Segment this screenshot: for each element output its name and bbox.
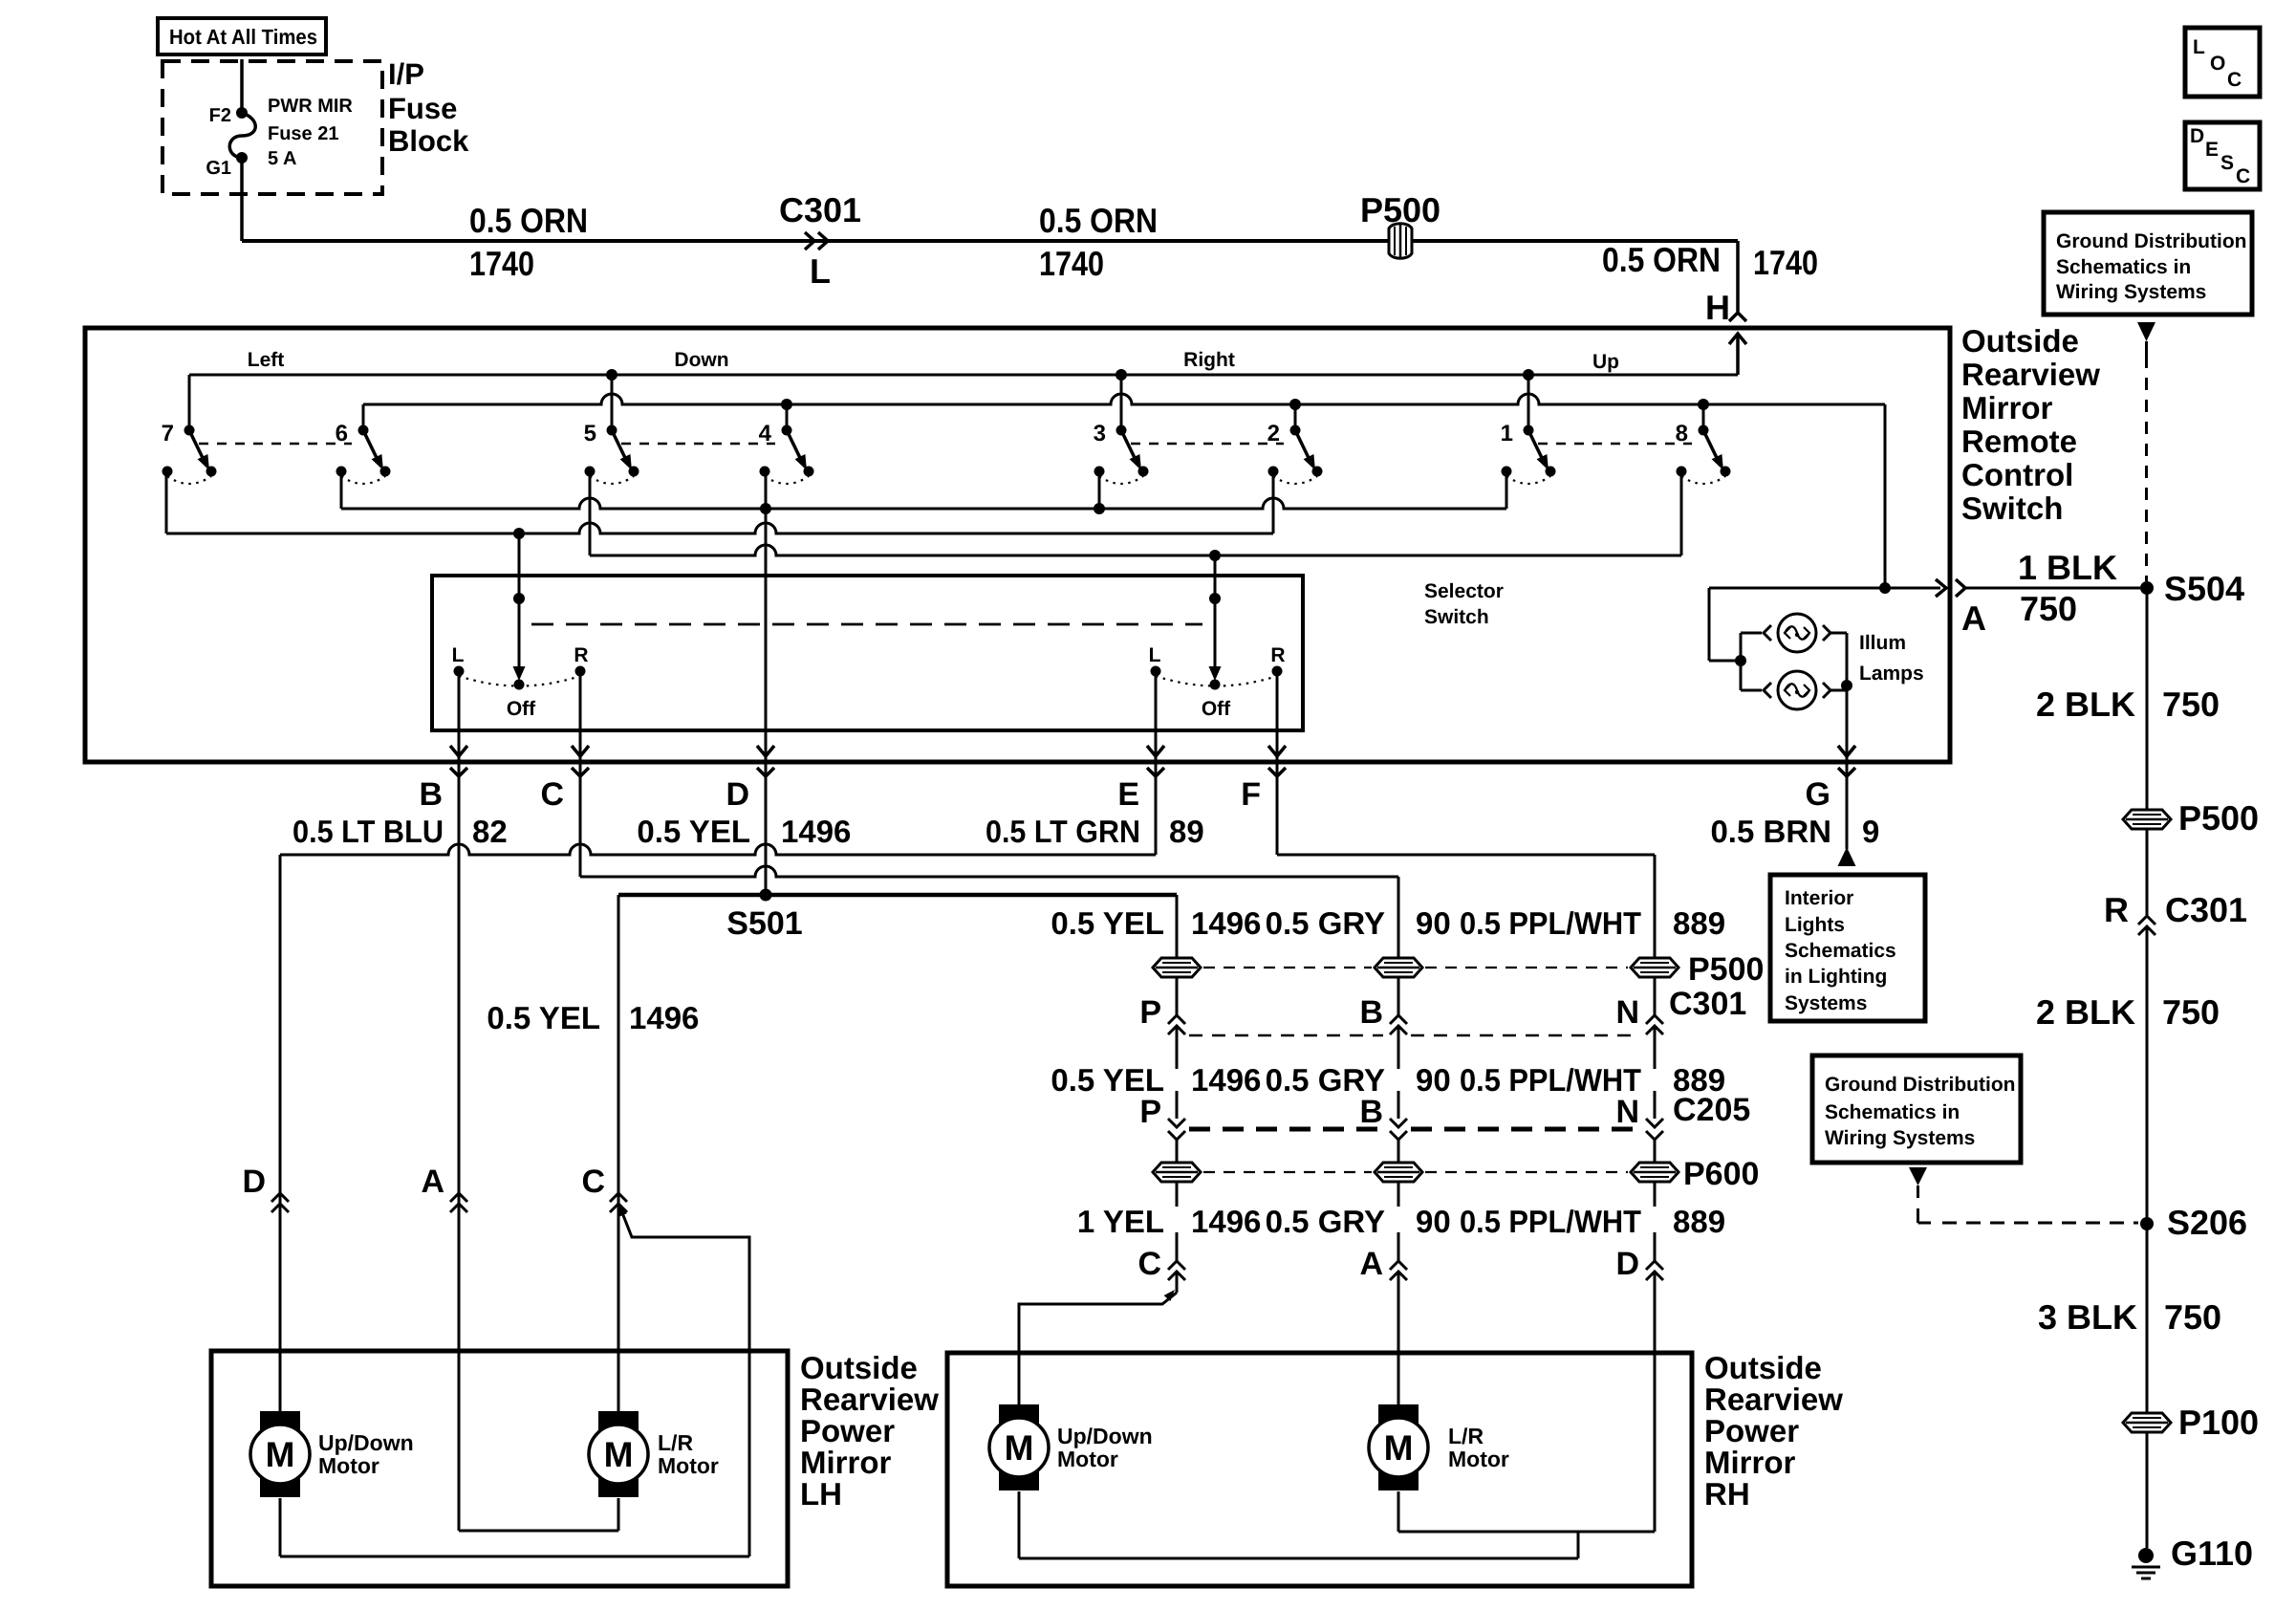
wire RH gry feed corner [1397,877,1400,959]
svg-text:1496: 1496 [629,1000,699,1035]
svg-text:3 BLK: 3 BLK [2038,1297,2137,1337]
svg-text:S206: S206 [2167,1203,2247,1242]
I/P fuse block dashed outline [162,61,382,194]
svg-text:B: B [1359,1094,1383,1130]
connector pin C chevron [578,765,583,774]
motor Up/Down Motor body M [989,1418,1049,1477]
off-page arrow from lower ground box [1909,1167,1927,1186]
svg-text:Interior: Interior [1785,887,1853,909]
grommet P600 on YEL [1153,1163,1201,1182]
ground G110 [2138,1548,2154,1563]
svg-text:A: A [1961,598,1986,638]
svg-text:90: 90 [1416,905,1451,941]
svg-text:889: 889 [1673,1204,1725,1239]
wire sw7 lower contact to selector L (rail y558) [165,471,168,533]
motor L/R Motor body M [1369,1418,1428,1477]
wire RH up/down motor return [1018,1491,1021,1558]
junction dot rail2 sw8 [1698,399,1709,410]
svg-text:S501: S501 [726,905,802,942]
svg-text:Outside: Outside [1961,323,2079,359]
switch contact 8 pivot [1699,425,1709,436]
selector section 1 wiper feed [518,533,521,669]
svg-text:F2: F2 [209,105,231,126]
legend box DESC [2185,122,2260,189]
junction dot S501 [760,889,772,902]
svg-text:PWR MIR: PWR MIR [268,96,353,117]
svg-text:Wiring Systems: Wiring Systems [1825,1127,1975,1149]
junction dot rail1 sw3 [1116,369,1127,381]
svg-text:Right: Right [1183,349,1235,371]
junction dot rail2 sw2 [1289,399,1301,410]
svg-text:7: 7 [162,421,174,446]
rail feed to switches 6 4 2 8 (lower rail) with hops [363,394,1885,404]
svg-text:Lamps: Lamps [1859,663,1924,685]
switch 2 travel arc [1273,476,1317,484]
svg-text:P500: P500 [1360,190,1440,229]
svg-text:Up/Down: Up/Down [1057,1424,1153,1448]
grommet P500 on ground bus [2123,810,2171,829]
svg-text:C301: C301 [2165,890,2247,929]
svg-text:Control: Control [1961,457,2073,492]
switch 6 travel arc [341,476,385,484]
connector pin G chevron [1845,765,1850,774]
wire illum feed to pin A [1709,587,1940,590]
selector mechanical link dashed [531,623,1202,626]
splice S504 dot [2140,581,2154,595]
svg-text:0.5 LT BLU: 0.5 LT BLU [292,814,444,849]
switch 6 blade arm with arrowhead [363,430,378,460]
motor L/R Motor body M [589,1425,648,1484]
svg-text:E: E [2205,139,2219,161]
svg-text:Lights: Lights [1785,914,1845,936]
svg-text:5 A: 5 A [268,148,296,169]
mechanical link switch 3-2 [1131,443,1284,446]
svg-text:M: M [266,1435,295,1474]
svg-text:1740: 1740 [469,244,534,283]
svg-text:0.5 BRN: 0.5 BRN [1710,814,1831,849]
inline connector on LH C wire [610,1193,627,1202]
svg-text:Ground Distribution: Ground Distribution [2056,230,2246,252]
switch 1 stationary contacts [1502,467,1512,477]
svg-text:Mirror: Mirror [1704,1445,1796,1480]
svg-text:Rearview: Rearview [1704,1382,1843,1417]
svg-text:B: B [1359,994,1383,1031]
mechanical link switch 7-6 [199,443,352,446]
svg-text:0.5 ORN: 0.5 ORN [1039,201,1158,240]
motor Up/Down Motor body M [250,1425,310,1484]
dashed link to S206 [1917,1208,1919,1223]
svg-text:Schematics: Schematics [1785,940,1896,962]
svg-text:1740: 1740 [1039,244,1104,283]
svg-text:Systems: Systems [1785,992,1867,1014]
junction dot selector drop 2 [1209,550,1221,561]
motor Up/Down Motor terminals [999,1404,1039,1424]
svg-text:Outside: Outside [800,1350,918,1385]
svg-text:Selector: Selector [1424,580,1504,602]
svg-text:P500: P500 [2178,798,2259,838]
illum lamps return bracket to G [1830,632,1847,635]
switch 4 blade arm with arrowhead [787,430,801,460]
switch 4 travel arc [765,476,809,484]
wire RH C YEL jog to up/down motor [1176,1273,1179,1293]
connector C301 pin L on feed wire [805,232,814,250]
svg-text:Mirror: Mirror [800,1445,892,1480]
svg-text:Left: Left [248,349,285,371]
selector section 2 L contact [1151,666,1161,677]
outside rearview power mirror LH outline [211,1351,788,1586]
stub to switch 1 [1527,375,1530,430]
selector section 2 R contact [1272,666,1283,677]
svg-text:F: F [1241,776,1261,813]
switch contact 4 pivot [782,425,792,436]
svg-text:L/R: L/R [658,1430,693,1455]
grommet P600 on GRY [1375,1163,1422,1182]
svg-text:Motor: Motor [1448,1447,1509,1471]
svg-text:P: P [1139,994,1161,1031]
svg-text:Rearview: Rearview [800,1382,939,1417]
switch 7 blade arm with arrowhead [189,430,204,460]
svg-text:N: N [1615,994,1639,1031]
svg-text:G: G [1806,776,1830,813]
svg-text:D: D [2190,125,2204,147]
svg-text:R: R [1270,644,1285,666]
svg-text:E: E [1117,776,1139,813]
wire LH A to L/R motor return [459,1530,618,1533]
junction dot rail1 sw5 [606,369,617,381]
svg-text:LH: LH [800,1476,842,1512]
svg-text:889: 889 [1673,905,1725,941]
svg-text:1496: 1496 [1191,1204,1261,1239]
svg-text:Schematics in: Schematics in [2056,256,2191,278]
svg-text:89: 89 [1169,814,1204,849]
svg-text:Fuse 21: Fuse 21 [268,123,338,144]
svg-text:P100: P100 [2178,1403,2259,1442]
switch 7 travel arc [167,476,211,484]
svg-text:1496: 1496 [1191,905,1261,941]
svg-text:P600: P600 [1683,1156,1759,1192]
wire LH pin C drop (YEL) from S501 [617,895,620,1412]
connector pin E chevron [1154,765,1159,774]
switch 5 travel arc [590,476,634,484]
switch 8 stationary contacts [1677,467,1687,477]
svg-text:0.5 LT GRN: 0.5 LT GRN [986,814,1140,849]
wire E 0.5 LT GRN 89 from selector to LH mirror pin D [1155,671,1158,855]
output arrow at pin E [1147,746,1164,756]
svg-text:C: C [1137,1246,1161,1282]
svg-text:P: P [1139,1094,1161,1130]
reference box Ground Distribution Schematics in Wiring Systems (lower) [1812,1055,2021,1163]
switch 3 stationary contacts [1094,467,1105,477]
pin G1 terminal dot [236,152,248,163]
wire RH yel feed from S501 [1176,895,1179,959]
svg-text:S504: S504 [2164,569,2244,608]
connector C301 row dashed link [1189,1034,1383,1037]
illum lamp upper [1764,625,1771,641]
wire F from selector R2 down [1276,671,1279,855]
svg-text:750: 750 [2162,685,2220,724]
svg-text:R: R [574,644,588,666]
wire RH A GRY to L/R motor [1397,1273,1400,1404]
switch 7 stationary contacts [162,467,173,477]
grommet P500 on YEL [1153,958,1201,977]
svg-text:Down: Down [674,349,728,371]
switch contact 3 pivot [1116,425,1127,436]
svg-text:in Lighting: in Lighting [1785,966,1887,988]
svg-text:90: 90 [1416,1062,1451,1098]
svg-text:G110: G110 [2171,1534,2253,1573]
svg-text:H: H [1705,288,1730,327]
wire 0.5 ORN 1740 from fuse to switch (horizontal feed) [240,158,244,241]
svg-text:1496: 1496 [1191,1062,1261,1098]
stub to switch 2 [1294,404,1297,430]
svg-text:L: L [2193,36,2205,58]
svg-text:N: N [1615,1094,1639,1130]
selector section 1 Off contact [514,680,525,690]
dashed wire to S504 [2145,356,2148,581]
svg-text:Ground Distribution: Ground Distribution [1825,1074,2015,1096]
splice S501 bus [618,893,1177,898]
svg-text:0.5 YEL: 0.5 YEL [637,814,750,849]
svg-text:5: 5 [584,421,596,446]
connector pin F chevron [1275,765,1280,774]
wire C from selector R down [579,671,582,877]
svg-text:G1: G1 [206,158,231,179]
svg-text:Off: Off [1202,698,1231,720]
svg-text:750: 750 [2164,1297,2221,1337]
wire G 0.5 BRN 9 to interior lights [1846,685,1849,849]
selector section 2 wiper feed [1214,555,1217,669]
switch 5 blade arm with arrowhead [612,430,626,460]
switch 1 blade arm with arrowhead [1528,430,1543,460]
svg-text:1740: 1740 [1753,243,1818,282]
svg-text:C301: C301 [779,190,861,229]
junction dot rail2 sw4 [781,399,792,410]
wire LH pin D drop (LT GRN) [279,855,282,1412]
svg-text:S: S [2220,152,2234,174]
fuse F2-G1 PWR MIR Fuse 21 5 A element [229,113,255,158]
svg-text:L: L [1149,644,1161,666]
svg-text:RH: RH [1704,1476,1750,1512]
svg-text:C301: C301 [1669,986,1746,1022]
outside rearview mirror remote control switch outline [85,328,1950,762]
motor L/R Motor terminals [1378,1404,1419,1424]
switch 1 travel arc [1506,476,1550,484]
mechanical link switch 5-4 [621,443,775,446]
output arrow at pin C [572,746,589,756]
svg-text:A: A [421,1164,444,1200]
selector section 1 travel arc [459,676,580,686]
stub to switch 3 [1120,375,1123,430]
wire B 0.5 LT BLU 82 from selector L to LH mirror [458,671,461,1531]
grommet P100 on ground bus [2123,1413,2171,1432]
svg-text:C205: C205 [1673,1092,1750,1128]
selector switch outline [432,576,1303,730]
connector C205 row heavy dashed link [1189,1127,1386,1132]
wire C to RH GRY (horizontal with hop) [580,866,1398,877]
wire D 0.5 YEL 1496 from sw4 to S501 [765,471,768,895]
switch 2 blade arm with arrowhead [1295,430,1310,460]
svg-text:C: C [2236,165,2250,187]
off-page arrow pin G to interior lights [1838,847,1856,866]
svg-text:Hot At All Times: Hot At All Times [169,25,317,49]
svg-text:0.5 ORN: 0.5 ORN [469,201,588,240]
svg-text:Motor: Motor [1057,1447,1118,1471]
output arrow at pin F [1268,746,1286,756]
svg-text:750: 750 [2162,992,2220,1032]
wire 2 BLK 750 S504 to P500 [2146,588,2149,1548]
svg-text:C: C [540,776,564,813]
svg-text:0.5 GRY: 0.5 GRY [1266,1204,1385,1239]
switch 3 blade arm with arrowhead [1121,430,1136,460]
svg-text:Block: Block [388,124,469,158]
svg-text:Outside: Outside [1704,1350,1822,1385]
connector pin B chevron [457,765,462,774]
svg-text:M: M [1384,1428,1414,1468]
illum lamp lower [1764,683,1771,698]
svg-text:0.5 YEL: 0.5 YEL [1051,1062,1164,1098]
switch 3 travel arc [1099,476,1143,484]
selector section 1 R contact [575,666,586,677]
switch 6 stationary contacts [336,467,347,477]
inline connector on LH D wire [271,1193,289,1202]
output arrow at pin B [450,746,467,756]
svg-text:Switch: Switch [1961,490,2063,526]
switch contact 5 pivot [607,425,617,436]
switch contact 6 pivot [358,425,369,436]
wire RH D PPL to motor returns [1654,1273,1657,1532]
svg-text:Fuse: Fuse [388,92,457,125]
selector section 2 Off contact [1210,680,1221,690]
svg-text:L: L [452,644,465,666]
connector pin A exit chevron [1956,579,1965,597]
svg-text:C: C [581,1164,605,1200]
svg-text:Motor: Motor [658,1453,719,1478]
switch 2 stationary contacts [1268,467,1279,477]
wire RH ppl feed corner [1654,855,1657,959]
svg-text:L/R: L/R [1448,1424,1484,1448]
legend box LOC [2185,28,2260,97]
svg-text:Power: Power [1704,1413,1799,1448]
svg-text:Rearview: Rearview [1961,357,2100,392]
svg-text:A: A [1359,1246,1383,1282]
grommet P600 row dashed link [1203,1171,1372,1173]
svg-text:9: 9 [1862,814,1879,849]
motor Up/Down Motor terminals [260,1411,300,1430]
svg-text:D: D [726,776,749,813]
grommet P600 on PPL [1631,1163,1679,1182]
stub to switch 8 [1702,404,1705,430]
wire E to LH pin D (horizontal with hops) [280,844,1156,855]
svg-text:82: 82 [472,814,508,849]
svg-text:Wiring Systems: Wiring Systems [2056,281,2206,303]
splice S206 dot [2140,1217,2154,1230]
svg-text:1 BLK: 1 BLK [2018,548,2117,587]
svg-text:Up/Down: Up/Down [318,1430,414,1455]
stub to switch 4 [786,404,789,430]
mechanical link switch 1-8 [1538,443,1692,446]
svg-text:O: O [2210,53,2225,75]
grommet P500 row dashed link [1203,967,1372,968]
pin F2 terminal dot [236,107,248,119]
selector section 1 L contact [454,666,465,677]
svg-text:I/P: I/P [388,57,424,91]
connector pin D chevron [764,765,769,774]
svg-text:2 BLK: 2 BLK [2036,685,2135,724]
stub to switch 5 [611,375,614,430]
svg-text:Remote: Remote [1961,424,2077,459]
svg-text:1: 1 [1501,421,1513,446]
wire F to RH PPL/WHT (horizontal) [1277,854,1655,857]
svg-text:1 YEL: 1 YEL [1077,1204,1164,1239]
svg-text:M: M [1005,1428,1034,1468]
svg-text:0.5 PPL/WHT: 0.5 PPL/WHT [1460,1062,1641,1098]
svg-text:0.5 GRY: 0.5 GRY [1266,905,1385,941]
svg-text:2 BLK: 2 BLK [2036,992,2135,1032]
wire sw6/sw4 lower contacts to node D (rail y532) [340,471,343,509]
grommet P500 on feed wire [1389,224,1412,259]
inline connector on LH A wire [450,1193,467,1202]
switch 5 stationary contacts [585,467,596,477]
selector section 2 travel arc [1156,676,1277,686]
junction dot node D on rail [760,503,771,514]
wire from hot feed into fuse [240,59,244,113]
wire H entry arrow inside switch [1729,334,1746,344]
illum lamps feed bracket [1708,588,1711,661]
svg-text:Power: Power [800,1413,895,1448]
svg-text:Off: Off [507,698,536,720]
pigtail from LH C wire to up/down motor return [621,1210,749,1556]
svg-text:3: 3 [1094,421,1106,446]
svg-text:750: 750 [2020,589,2077,628]
svg-text:L: L [810,251,831,291]
svg-text:0.5 PPL/WHT: 0.5 PPL/WHT [1460,1204,1641,1239]
wire sw5 lower contact to selector R (rail y581) [589,471,592,555]
junction dot selector drop 1 [513,528,525,539]
svg-text:0.5 YEL: 0.5 YEL [487,1000,600,1035]
svg-text:Motor: Motor [318,1453,379,1478]
label box "Hot At All Times" [158,18,326,54]
wire rail2 to illum lamps feed [1884,404,1887,588]
off-page arrow from ground box to S504 [2137,322,2155,341]
svg-text:R: R [2104,890,2129,929]
wire LH up/down motor return to pigtail [279,1498,282,1556]
svg-text:B: B [419,776,443,813]
reference box Ground Distribution Schematics in Wiring Systems (upper) [2044,212,2252,315]
wire illum return down to pin G with arrow [1846,685,1849,759]
switch 8 blade arm with arrowhead [1703,430,1718,460]
svg-text:0.5 YEL: 0.5 YEL [1051,905,1164,941]
svg-text:1496: 1496 [781,814,851,849]
svg-text:Schematics in: Schematics in [1825,1101,1960,1123]
svg-text:D: D [1615,1246,1639,1282]
grommet P500 on PPL [1631,958,1679,977]
motor L/R Motor terminals [598,1411,639,1430]
grommet P500 on GRY [1375,958,1422,977]
svg-text:C: C [2227,69,2242,91]
svg-text:0.5 GRY: 0.5 GRY [1266,1062,1385,1098]
svg-text:0.5 ORN: 0.5 ORN [1602,240,1721,279]
svg-text:Mirror: Mirror [1961,390,2053,425]
switch 8 travel arc [1681,476,1725,484]
outside rearview power mirror RH outline [947,1353,1692,1586]
switch contact 7 pivot [184,425,195,436]
junction dot rail1 sw1 [1523,369,1534,381]
switch contact 2 pivot [1290,425,1301,436]
svg-text:P500: P500 [1688,951,1764,988]
switch 4 stationary contacts [760,467,770,477]
reference box Interior Lights Schematics in Lighting Systems [1770,875,1925,1021]
svg-text:D: D [242,1164,266,1200]
